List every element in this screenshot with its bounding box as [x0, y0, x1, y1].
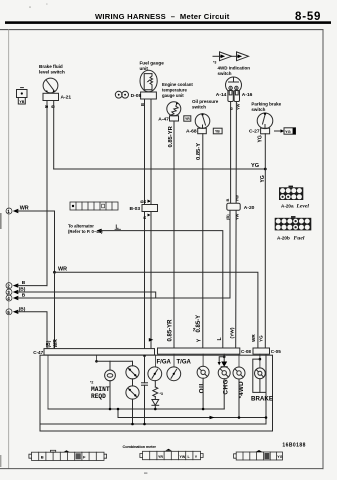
- svg-text:(Refer to P. 0–41): (Refer to P. 0–41): [68, 229, 103, 234]
- fuel gauge unit D-08: [115, 61, 164, 107]
- wire: node 5 line down to C-47: [18, 312, 48, 349]
- node 3 (circled 3, (B)): [6, 287, 26, 295]
- 4WD indication switch: [213, 52, 253, 110]
- svg-text:1: 1: [7, 209, 10, 214]
- bottom connector strip right: [234, 450, 283, 460]
- svg-text:Y: Y: [197, 338, 203, 342]
- meter pin stubs below strips: [48, 354, 260, 409]
- wire: BRAKE ground: [259, 379, 261, 393]
- node 2 (circled 2, B): [6, 280, 26, 288]
- svg-text:F/GA: F/GA: [157, 360, 172, 366]
- wire: brake switch left pin down to node 2: [46, 101, 48, 286]
- svg-text:A-47: A-47: [158, 117, 169, 123]
- svg-text:B: B: [41, 455, 44, 460]
- svg-text:Combination meter: Combination meter: [123, 444, 157, 449]
- frame top border: [0, 29, 323, 31]
- bus B junction dots: [131, 416, 267, 425]
- wire: maint feed bus: [97, 360, 133, 362]
- svg-text:A-20: A-20: [244, 205, 255, 211]
- svg-text:0.85-YR: 0.85-YR: [168, 125, 174, 147]
- svg-text:0.85-Y: 0.85-Y: [196, 315, 202, 333]
- parking brake switch C-27: [249, 102, 296, 143]
- svg-text:A-16: A-16: [242, 92, 253, 98]
- arrow to remote YG box: [275, 130, 282, 132]
- svg-text:(YW): (YW): [230, 327, 236, 338]
- svg-text:A-21: A-21: [61, 95, 72, 101]
- jog arrow near C-47 right end: [149, 338, 154, 342]
- gauge F/GA: [148, 360, 172, 387]
- wire: node 3 line steps down to node 4 line: [18, 292, 156, 298]
- wire: fuel sender left (B) down to C-47: [144, 99, 146, 349]
- junction: YG / parking brake: [264, 168, 267, 171]
- node 4 (circled 4, B): [6, 293, 26, 301]
- svg-text:YG: YG: [285, 129, 291, 134]
- connector face A-20b: [275, 216, 312, 242]
- svg-text:5: 5: [7, 310, 10, 315]
- connector face A-20a: [279, 186, 309, 210]
- gauge T/GA: [167, 360, 192, 381]
- svg-text:*3: *3: [213, 61, 216, 65]
- svg-text:16B0188: 16B0188: [282, 443, 305, 449]
- lamp 4WD: [233, 367, 245, 398]
- svg-text:YG: YG: [259, 335, 264, 342]
- svg-text:Brake fluid: Brake fluid: [39, 64, 63, 69]
- meter connector strip C-05: [253, 348, 281, 354]
- frame bottom border: [0, 468, 323, 470]
- svg-text:B: B: [51, 105, 56, 108]
- wire: 4WD right pin (YW) down to C-08: [235, 102, 238, 349]
- lamp BRAKE: [251, 368, 273, 403]
- svg-text:YR: YR: [158, 455, 163, 459]
- svg-text:A-20b: A-20b: [277, 236, 290, 241]
- svg-text:0.85-YR: 0.85-YR: [168, 319, 174, 342]
- pin strip connector (top middle): [70, 202, 118, 210]
- wire: oil switch 0.85-Y down to C-08: [202, 134, 204, 349]
- remote arrow symbol left: [213, 55, 221, 57]
- engine coolant temperature gauge unit A-47: [158, 82, 193, 123]
- svg-text:Engine coolant: Engine coolant: [162, 82, 193, 87]
- svg-text:CHG: CHG: [223, 379, 230, 395]
- svg-text:C-08: C-08: [241, 349, 251, 354]
- svg-text:C-47: C-47: [33, 350, 43, 355]
- svg-text:gauge unit: gauge unit: [162, 93, 184, 98]
- svg-text:WR: WR: [58, 267, 67, 273]
- wire: WR continues down to C-47: [54, 272, 56, 349]
- remote arrow symbol right: [231, 55, 239, 57]
- header title: [95, 12, 230, 21]
- pointer on bottom-left strip: [63, 450, 70, 452]
- svg-text:Level: Level: [296, 204, 310, 210]
- wire: 4WD ground: [238, 379, 240, 418]
- scan speckles top-left: [29, 7, 31, 8]
- wire: WR from node 1 to corner: [18, 211, 55, 272]
- scan streak left edge: [0, 213, 2, 229]
- svg-text:level switch: level switch: [39, 70, 65, 75]
- svg-text:0.85-Y: 0.85-Y: [196, 143, 202, 160]
- header rule: [5, 21, 331, 24]
- svg-text:4WD indication: 4WD indication: [218, 66, 251, 71]
- lamp OIL: [197, 366, 209, 393]
- wire: CHG ground: [223, 379, 225, 409]
- svg-text:8-59: 8-59: [295, 11, 321, 23]
- svg-text:MAINT: MAINT: [91, 386, 110, 393]
- svg-text:Oil pressure: Oil pressure: [192, 99, 219, 104]
- wire: OIL ground: [202, 378, 204, 409]
- svg-text:WIRING HARNESS – Meter Circu: WIRING HARNESS – Meter Circuit: [95, 12, 230, 21]
- svg-text:A-20a: A-20a: [281, 204, 294, 209]
- junction dot bus C left: [117, 408, 120, 411]
- svg-text:YG: YG: [251, 163, 259, 169]
- svg-text:OIL: OIL: [199, 381, 206, 393]
- svg-text:BRAKE: BRAKE: [251, 396, 273, 403]
- pointer on bottom-middle strip: [165, 449, 172, 451]
- svg-text:A-14: A-14: [216, 92, 227, 98]
- wire: WR horizontal to C-05 drop: [55, 272, 258, 348]
- wire: brake right drop to bus: [265, 392, 267, 424]
- svg-text:T/GA: T/GA: [177, 360, 192, 366]
- svg-text:YG: YG: [258, 135, 264, 142]
- svg-text:Parking brake: Parking brake: [251, 102, 281, 107]
- to alternator note with L wire: [68, 224, 121, 235]
- svg-text:B: B: [225, 199, 230, 202]
- oil pressure switch A-68: [186, 99, 222, 134]
- wire: YG horizontal run: [54, 168, 266, 170]
- stray scan tick below frame: [144, 473, 147, 474]
- svg-text:REQD: REQD: [91, 393, 106, 400]
- svg-text:C-05: C-05: [271, 349, 281, 354]
- meter bus B: [40, 423, 266, 425]
- frame right border: [322, 30, 324, 469]
- side branch with down arrow: [219, 357, 224, 363]
- bottom connector strip left: [29, 450, 107, 460]
- svg-text:YR: YR: [185, 117, 190, 121]
- svg-text:YB: YB: [215, 130, 220, 134]
- svg-text:temperature: temperature: [162, 88, 187, 93]
- meter connector strip C-47: [33, 349, 154, 355]
- inline connector A-20: [225, 195, 255, 220]
- meter bus C with arrow: [118, 409, 266, 419]
- zener diode under F/GA: [152, 397, 159, 409]
- svg-text:4: 4: [7, 296, 10, 301]
- resistor under F/GA with *3: [153, 387, 163, 397]
- svg-text:switch: switch: [251, 107, 265, 112]
- wire: maint lamp ground: [109, 381, 111, 409]
- svg-text:YW: YW: [180, 455, 186, 459]
- combination meter outline: [40, 355, 273, 431]
- svg-text:3: 3: [7, 290, 10, 295]
- svg-text:switch: switch: [218, 71, 232, 76]
- svg-text:To alternator: To alternator: [68, 224, 94, 229]
- svg-text:WR: WR: [53, 339, 59, 348]
- svg-text:A-68: A-68: [186, 128, 197, 134]
- svg-text:YB: YB: [19, 100, 24, 104]
- junction: brake feed: [259, 358, 262, 361]
- meter ground bus A: [48, 408, 224, 410]
- bottom connector strip middle: [140, 451, 203, 459]
- svg-text:C-27: C-27: [249, 129, 260, 135]
- wire: brake switch right pin down: [53, 101, 55, 170]
- svg-text:YW: YW: [235, 195, 240, 202]
- junction: WR split: [53, 271, 56, 274]
- frame left border: [8, 30, 10, 469]
- wire: brake loop left: [253, 355, 266, 392]
- svg-text:B: B: [139, 200, 144, 203]
- connector symbol (single-pin, top-left): [17, 88, 28, 104]
- svg-text:*3: *3: [160, 392, 163, 396]
- svg-text:WR: WR: [251, 334, 256, 342]
- svg-text:switch: switch: [192, 105, 206, 110]
- svg-text:Y: Y: [146, 200, 151, 203]
- node 1 (circled 1, WR to alternator): [6, 206, 29, 214]
- wire: 4WD left pin (B) down to node 3: [229, 102, 232, 293]
- svg-text:(B): (B): [225, 214, 230, 220]
- capacitor branch: [142, 355, 148, 424]
- svg-text:D-08: D-08: [131, 93, 142, 99]
- brake fluid level switch A-21: [39, 64, 71, 108]
- lamp CHG: [218, 367, 230, 395]
- wire: fuel sender right (Y) down to C-47: [150, 99, 152, 349]
- svg-text:Fuel: Fuel: [294, 236, 305, 242]
- MAINT REQD lamp: [90, 370, 115, 400]
- node 5 (circled 5, (B)): [6, 306, 26, 314]
- svg-text:YG: YG: [277, 455, 282, 459]
- wire: maint lamp drop: [109, 361, 111, 370]
- inline connector B-03: [130, 200, 158, 220]
- svg-text:YW: YW: [235, 213, 240, 220]
- bus A junction dots: [109, 408, 205, 411]
- wire: node 2 line to brake switch wire: [18, 285, 48, 287]
- diode feed for CHG: [218, 354, 228, 367]
- svg-text:Fuel gauge: Fuel gauge: [140, 61, 165, 66]
- wire: L from alternator note to C-08: [101, 231, 223, 349]
- svg-text:2: 2: [7, 284, 10, 289]
- MAINT sensor bulbs: [126, 361, 139, 424]
- wire: node 4 line to 4WD B wire: [18, 292, 231, 298]
- svg-text:B-03: B-03: [130, 206, 141, 212]
- svg-text:B: B: [142, 216, 147, 219]
- wire: parking brake YG down to C-05: [264, 134, 266, 349]
- wire: coolant 0.85-YR down to C-08: [173, 121, 175, 349]
- svg-text:*2: *2: [90, 381, 93, 385]
- meter connector strip C-08: [158, 348, 252, 354]
- junction: maint feed: [95, 360, 98, 363]
